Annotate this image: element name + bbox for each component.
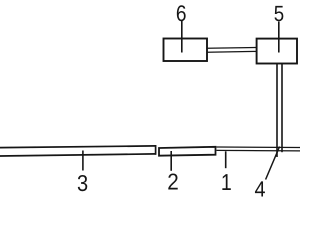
leader line for label 5 — [278, 22, 280, 53]
wire: right line of vertical double run below box 5 — [281, 64, 283, 153]
svg-text:6: 6 — [176, 1, 187, 26]
leader line for label 3 — [82, 151, 84, 171]
svg-text:3: 3 — [77, 170, 88, 196]
wire 1/4 rail: bottom line — [217, 149, 301, 152]
svg-text:5: 5 — [274, 1, 284, 26]
box 6 — [164, 39, 208, 62]
wire 1/4 rail: top line — [217, 146, 301, 149]
leader line for label 6 — [181, 21, 183, 53]
wire: left line of vertical double run below box 5 — [276, 64, 278, 158]
svg-text:1: 1 — [221, 169, 232, 195]
leader line for label 1 — [225, 151, 227, 168]
leader line for label 4 (diagonal) — [266, 147, 280, 180]
leader line for label 2 — [170, 151, 172, 171]
bar 3: right end cap — [155, 145, 157, 155]
bar 3: bottom edge — [0, 154, 156, 156]
bar 3: top edge — [0, 146, 156, 148]
wire: upper line of double link between box 6 and box 5 — [207, 47, 257, 50]
svg-text:2: 2 — [167, 168, 179, 194]
box 5 — [257, 39, 297, 64]
wire: lower line of double link between box 6 and box 5 — [207, 50, 257, 53]
svg-text:4: 4 — [254, 177, 265, 200]
bar 2: outline — [159, 147, 216, 156]
